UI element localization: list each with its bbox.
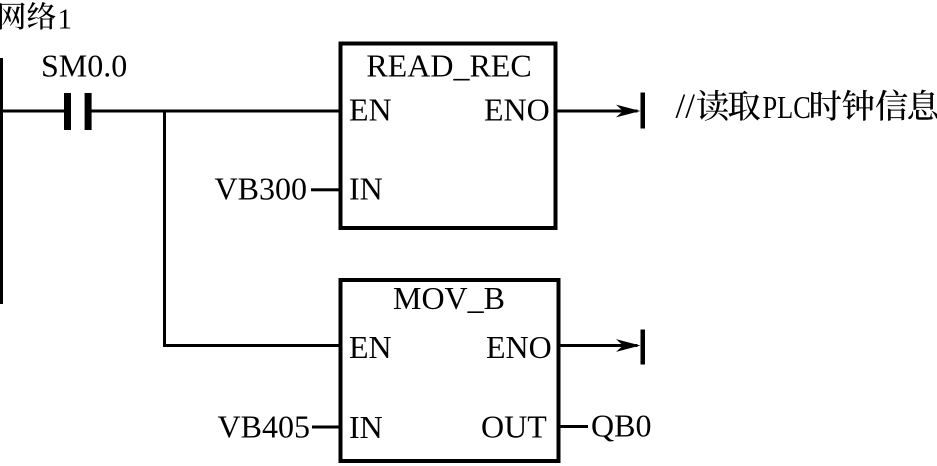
wire: branch vertical (junction at main rung): [163, 110, 166, 348]
svg-text:ENO: ENO: [484, 92, 550, 128]
comment //读取PLC时钟信息: [676, 87, 937, 126]
wire: power rail to contact: [0, 110, 65, 113]
svg-text:EN: EN: [349, 92, 392, 128]
svg-text:MOV_B: MOV_B: [393, 280, 505, 316]
function block U2 MOV_B: [341, 280, 559, 461]
svg-text:EN: EN: [349, 329, 392, 365]
end bar: U1 rung terminator: [641, 93, 646, 129]
wire: VB300 to IN pin: [311, 188, 341, 191]
wire: U1 ENO output: [556, 110, 638, 113]
svg-text:OUT: OUT: [481, 409, 547, 445]
arrow: U2 ENO output arrowhead: [616, 339, 641, 352]
arrow: U1 ENO output arrowhead: [616, 105, 641, 118]
svg-text:PLC: PLC: [763, 89, 811, 125]
svg-text:IN: IN: [349, 171, 383, 207]
end bar: U2 rung terminator: [641, 330, 646, 365]
left power rail: [0, 58, 3, 304]
svg-text:ENO: ENO: [486, 329, 552, 365]
svg-text:SM0.0: SM0.0: [41, 48, 127, 84]
wire: U2 OUT to QB0: [559, 425, 589, 428]
svg-text:READ_REC: READ_REC: [366, 48, 531, 84]
network label 网络1: [0, 2, 72, 35]
wire: U2 ENO output: [559, 344, 638, 347]
contact SM0.0 left bar: [64, 93, 71, 130]
svg-text://: //: [676, 87, 696, 126]
contact SM0.0 right bar: [85, 93, 92, 130]
svg-text:QB0: QB0: [591, 408, 651, 444]
svg-text:1: 1: [58, 3, 73, 35]
svg-text:IN: IN: [349, 409, 383, 445]
svg-text:VB300: VB300: [215, 171, 307, 207]
wire: VB405 to IN pin: [312, 426, 341, 429]
svg-text:VB405: VB405: [218, 409, 310, 445]
function block U1 READ_REC: [341, 44, 556, 229]
wire: branch to MOV_B EN: [163, 344, 341, 347]
wire: contact to READ_REC EN: [91, 110, 341, 113]
